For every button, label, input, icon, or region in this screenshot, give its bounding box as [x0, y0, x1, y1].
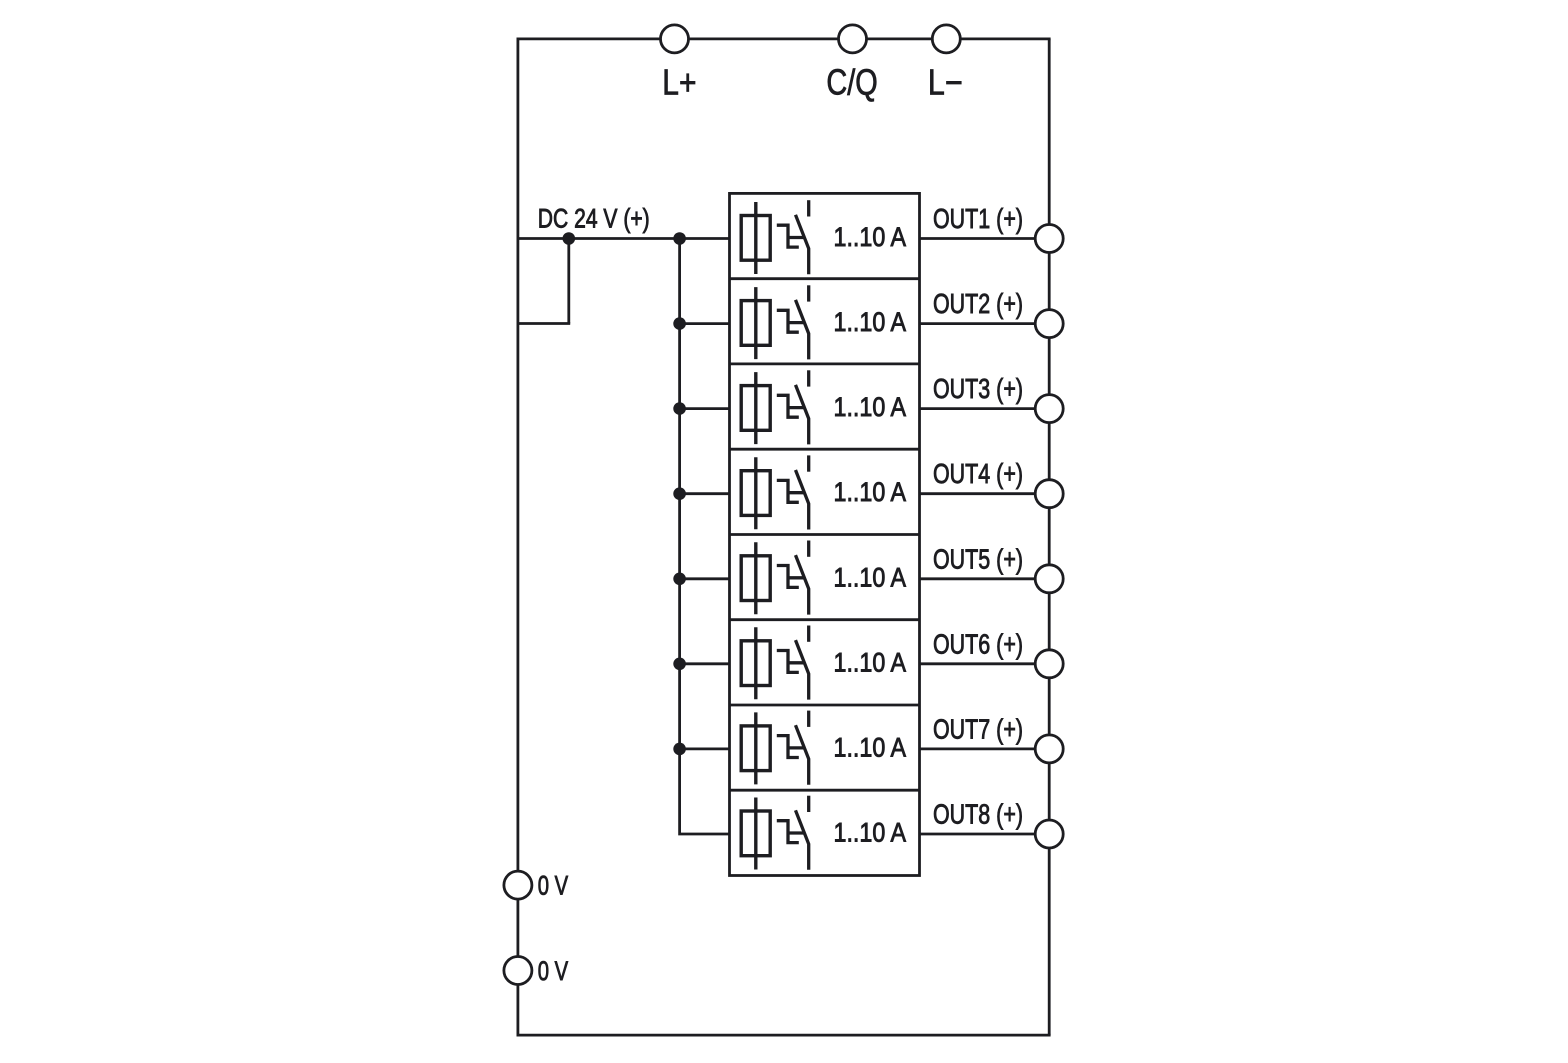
svg-text:OUT1 (+): OUT1 (+) — [933, 203, 1023, 234]
svg-text:OUT4 (+): OUT4 (+) — [933, 458, 1023, 489]
channel block outline — [730, 193, 920, 875]
release hook Q4 — [777, 480, 799, 502]
wire bottom edge — [517, 1034, 1051, 1037]
release hook Q3 — [777, 395, 799, 417]
wire contact link 5 — [788, 576, 805, 579]
switch blade S7 — [796, 725, 809, 785]
release hook Q8 — [777, 821, 799, 843]
wire left edge — [517, 39, 520, 1035]
terminal OUT3 — [1035, 395, 1063, 423]
terminal OUT2 — [1035, 310, 1063, 338]
wire branch to channel 4 — [680, 492, 730, 495]
svg-text:OUT6 (+): OUT6 (+) — [933, 628, 1023, 659]
terminal L+ — [661, 25, 689, 53]
wire top edge — [517, 38, 1051, 41]
svg-text:1..10 A: 1..10 A — [834, 477, 907, 507]
wire OUT5 — [920, 577, 1050, 580]
switch blade S2 — [796, 300, 809, 360]
wire contact link 1 — [788, 236, 805, 239]
channel separator 1 — [730, 277, 920, 280]
svg-text:1..10 A: 1..10 A — [834, 222, 907, 252]
svg-text:1..10 A: 1..10 A — [834, 732, 907, 762]
actuator dash 7 — [807, 711, 810, 727]
node J4 (bus channel 3) — [673, 402, 686, 415]
svg-text:1..10 A: 1..10 A — [834, 392, 907, 422]
wire branch to channel 3 — [680, 407, 730, 410]
svg-text:1..10 A: 1..10 A — [834, 307, 907, 337]
svg-text:C/Q: C/Q — [826, 62, 877, 103]
svg-text:1..10 A: 1..10 A — [834, 562, 907, 592]
node J3 (bus channel 2) — [673, 317, 686, 330]
fuse F5 — [741, 542, 770, 614]
svg-text:1..10 A: 1..10 A — [834, 818, 907, 848]
wire OUT3 — [920, 407, 1050, 410]
node J2 (bus top) — [673, 232, 686, 245]
wire OUT2 — [920, 322, 1050, 325]
node J8 (bus channel 7) — [673, 743, 686, 756]
terminal OUT8 — [1035, 820, 1063, 848]
terminal 0V a — [504, 871, 532, 899]
actuator dash 8 — [807, 796, 810, 812]
actuator dash 1 — [807, 200, 810, 216]
svg-text:OUT2 (+): OUT2 (+) — [933, 288, 1023, 319]
wire OUT8 — [920, 833, 1050, 836]
terminal OUT5 — [1035, 565, 1063, 593]
terminal 0V b — [504, 957, 532, 985]
release hook Q6 — [777, 651, 799, 673]
wire contact link 3 — [788, 406, 805, 409]
fuse F4 — [741, 457, 770, 529]
switch blade S8 — [796, 810, 809, 870]
channel separator 5 — [730, 618, 920, 621]
switch blade S3 — [796, 385, 809, 445]
wire branch to channel 7 — [680, 748, 730, 751]
wire OUT6 — [920, 662, 1050, 665]
fuse F8 — [741, 798, 770, 870]
actuator dash 2 — [807, 285, 810, 301]
wire right edge — [1048, 39, 1051, 1035]
svg-text:0 V: 0 V — [538, 871, 568, 901]
wire contact link 6 — [788, 661, 805, 664]
node J1 (DC 24 V) — [563, 232, 576, 245]
release hook Q5 — [777, 566, 799, 588]
channel separator 2 — [730, 362, 920, 365]
svg-text:OUT8 (+): OUT8 (+) — [933, 799, 1023, 830]
wire loop bottom — [518, 322, 570, 325]
actuator dash 5 — [807, 541, 810, 557]
channel separator 7 — [730, 789, 920, 792]
actuator dash 4 — [807, 455, 810, 471]
wire contact link 7 — [788, 746, 805, 749]
svg-text:L−: L− — [928, 62, 963, 103]
node J5 (bus channel 4) — [673, 487, 686, 500]
wire branch to channel 5 — [680, 577, 730, 580]
switch blade S1 — [796, 215, 809, 274]
release hook Q7 — [777, 736, 799, 758]
terminal OUT7 — [1035, 735, 1063, 763]
wire OUT4 — [920, 492, 1050, 495]
release hook Q1 — [777, 225, 799, 247]
wire branch to channel 2 — [680, 322, 730, 325]
svg-text:L+: L+ — [662, 62, 696, 103]
fuse F1 — [741, 202, 770, 274]
switch blade S5 — [796, 555, 809, 615]
svg-text:OUT5 (+): OUT5 (+) — [933, 543, 1023, 574]
terminal C/Q — [839, 25, 867, 53]
terminal OUT6 — [1035, 650, 1063, 678]
fuse F3 — [741, 372, 770, 444]
channel separator 4 — [730, 533, 920, 536]
release hook Q2 — [777, 310, 799, 332]
svg-text:1..10 A: 1..10 A — [834, 647, 907, 677]
channel separator 6 — [730, 704, 920, 707]
switch blade S6 — [796, 640, 809, 700]
actuator dash 6 — [807, 626, 810, 642]
terminal OUT4 — [1035, 480, 1063, 508]
svg-text:DC 24 V (+): DC 24 V (+) — [538, 203, 650, 233]
wire contact link 4 — [788, 491, 805, 494]
svg-text:OUT7 (+): OUT7 (+) — [933, 713, 1023, 744]
wire OUT1 — [920, 237, 1050, 240]
node J7 (bus channel 6) — [673, 658, 686, 671]
switch blade S4 — [796, 470, 809, 530]
wire OUT7 — [920, 748, 1050, 751]
wire DC 24 V feed — [518, 237, 730, 240]
wire contact link 8 — [788, 831, 805, 834]
svg-text:OUT3 (+): OUT3 (+) — [933, 373, 1023, 404]
wire loop vertical — [567, 239, 570, 324]
wire contact link 2 — [788, 321, 805, 324]
channel separator 3 — [730, 448, 920, 451]
actuator dash 3 — [807, 370, 810, 386]
wire branch to channel 6 — [680, 662, 730, 665]
node J6 (bus channel 5) — [673, 573, 686, 586]
terminal L- — [932, 25, 960, 53]
svg-text:0 V: 0 V — [538, 956, 568, 986]
fuse F7 — [741, 712, 770, 784]
fuse F6 — [741, 627, 770, 699]
fuse F2 — [741, 287, 770, 359]
terminal OUT1 — [1035, 225, 1063, 253]
wire L+ distribution bus — [680, 239, 730, 835]
